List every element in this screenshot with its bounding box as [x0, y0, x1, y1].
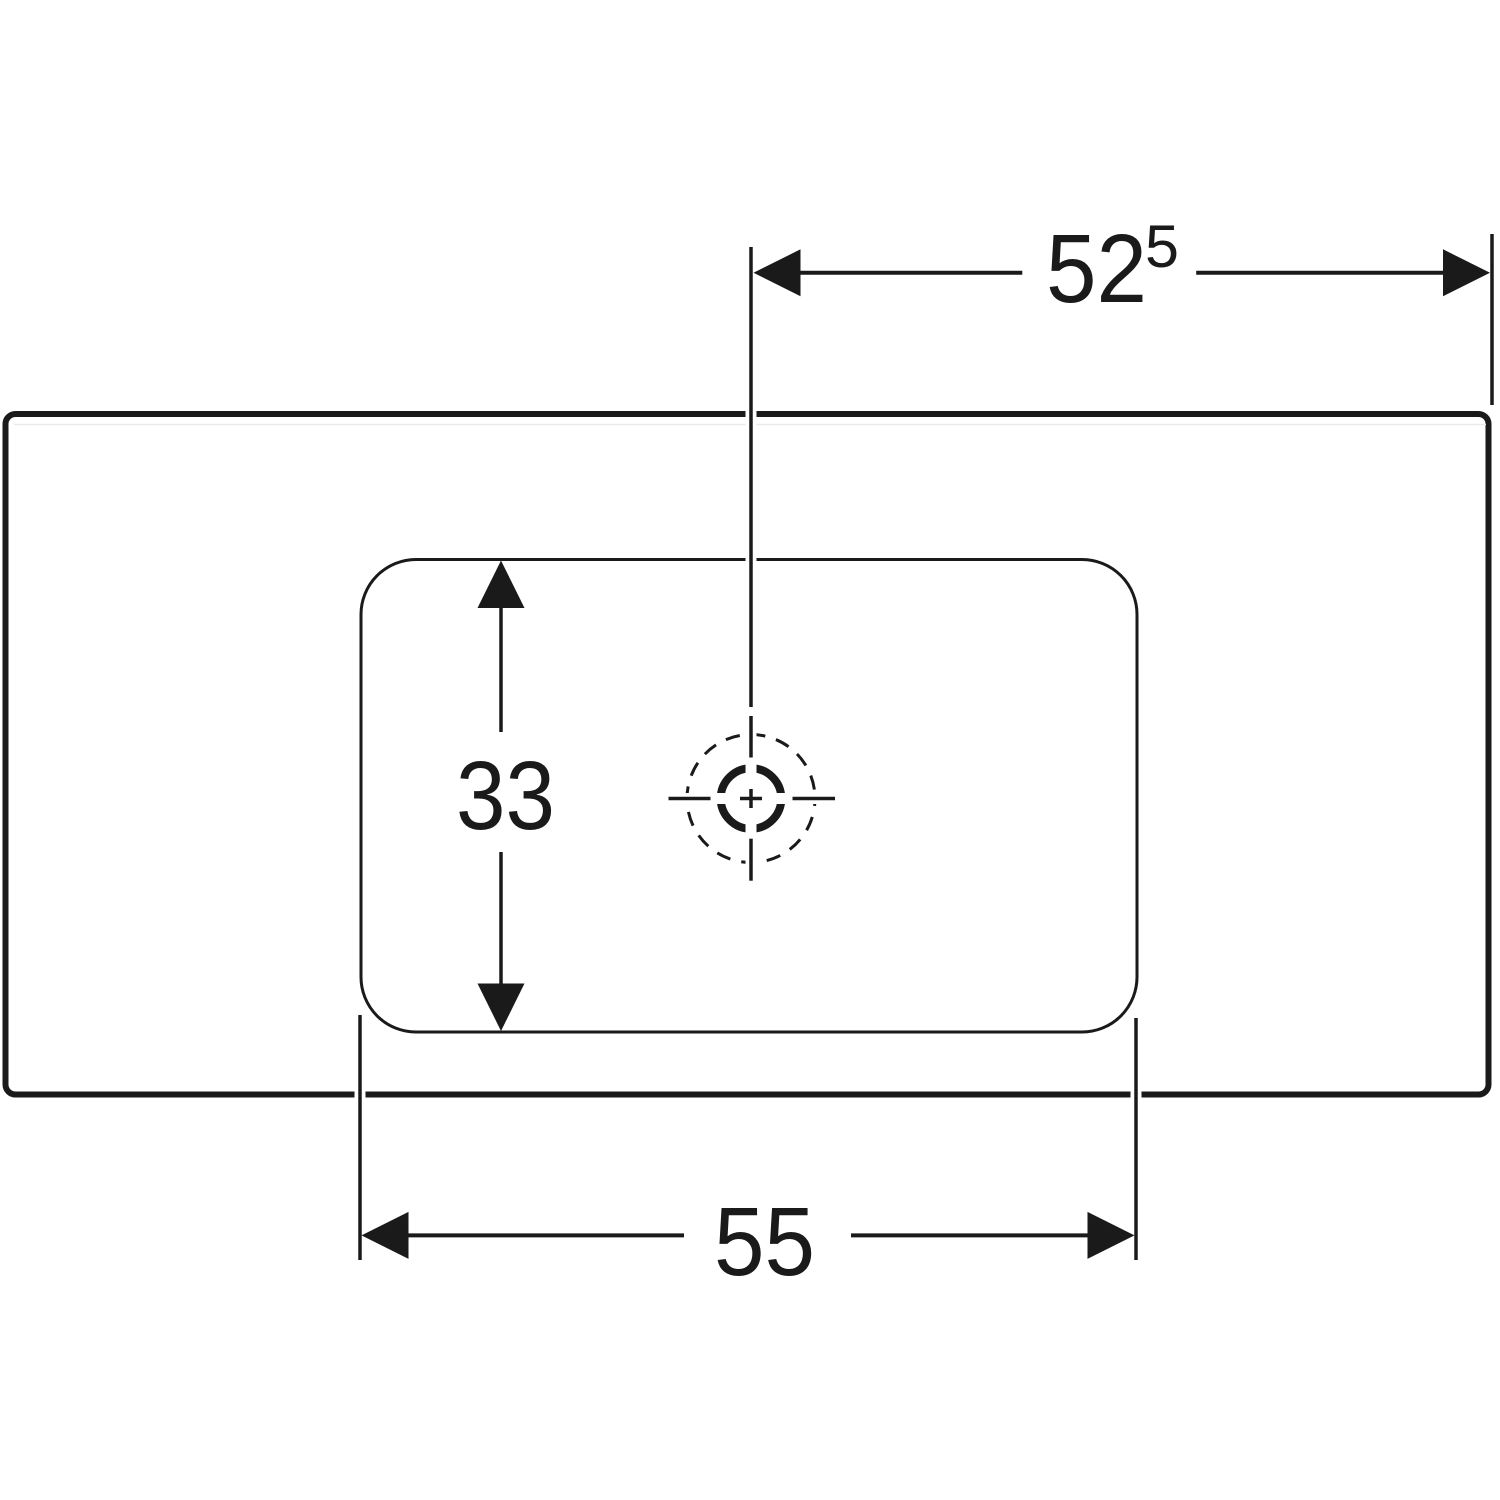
svg-text:52: 52	[1046, 214, 1147, 323]
svg-text:55: 55	[714, 1187, 815, 1296]
svg-text:5: 5	[1145, 213, 1179, 280]
svg-text:33: 33	[456, 741, 555, 850]
